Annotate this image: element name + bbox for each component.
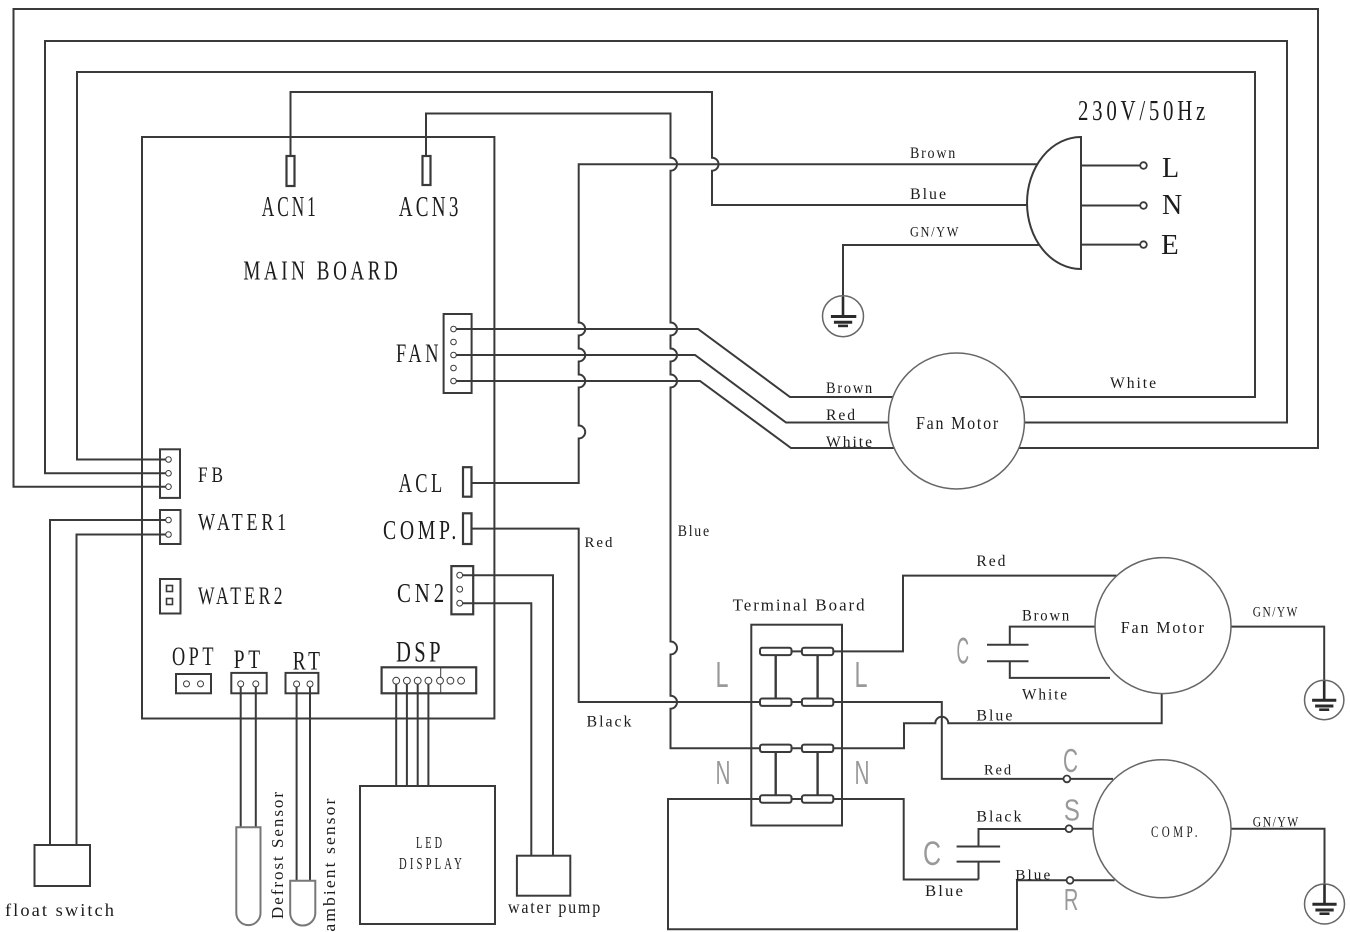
svg-text:Red: Red	[585, 535, 615, 551]
connector WATER1	[159, 510, 181, 544]
svg-text:White: White	[1022, 687, 1069, 704]
wire fan motor 2 capacitor top (Brown)	[1010, 627, 1097, 645]
COMP C terminal circle	[1064, 776, 1071, 783]
svg-text:N: N	[855, 754, 870, 791]
svg-text:FAN: FAN	[396, 339, 442, 368]
wire COMP connector to terminal board L row (Red/Black)	[471, 529, 835, 702]
svg-text:CN2: CN2	[397, 578, 448, 608]
svg-text:LED: LED	[416, 833, 445, 852]
svg-text:Brown: Brown	[910, 145, 957, 162]
wire fan motor 2 to ground (GN/YW)	[1230, 627, 1324, 681]
svg-text:Fan Motor: Fan Motor	[916, 413, 1000, 433]
wire ACL to plug L terminal (Brown) with hops	[471, 164, 1037, 483]
plug terminal L	[1081, 162, 1147, 169]
connector FB	[159, 449, 180, 498]
wire ACN3 to terminal board N row (Blue vertical) with hops	[426, 114, 843, 749]
ambient sensor probe	[290, 881, 315, 926]
connector ACL pin	[463, 467, 472, 497]
wire WATER1 pin1 to float switch	[50, 520, 165, 845]
svg-text:L: L	[855, 654, 868, 695]
svg-text:COMP.: COMP.	[1151, 824, 1201, 841]
svg-text:S: S	[1064, 793, 1080, 828]
wire FAN pin5 to fan motor 1 (White)	[456, 381, 895, 448]
svg-text:Defrost Sensor: Defrost Sensor	[268, 790, 287, 919]
svg-text:Fan Motor: Fan Motor	[1121, 618, 1206, 637]
svg-text:GN/YW: GN/YW	[1253, 815, 1300, 831]
svg-text:Brown: Brown	[826, 380, 874, 397]
plug terminal E	[1081, 241, 1147, 248]
svg-text:L: L	[1162, 153, 1179, 184]
wire CN2 pin1 to water pump right	[463, 575, 553, 856]
LED display box	[360, 786, 495, 924]
svg-text:Blue: Blue	[925, 883, 965, 900]
svg-text:RT: RT	[293, 647, 324, 676]
terminal board bars with connecting stems	[760, 648, 833, 803]
svg-text:ACN3: ACN3	[399, 191, 462, 223]
float switch box	[35, 845, 91, 886]
wire terminal board L top to fan motor 2 (Red)	[762, 576, 1117, 652]
svg-text:FB: FB	[198, 462, 227, 487]
svg-text:Blue: Blue	[976, 708, 1014, 725]
svg-text:Brown: Brown	[1022, 608, 1071, 625]
svg-text:Red: Red	[984, 763, 1013, 779]
svg-text:ACL: ACL	[399, 468, 446, 498]
connector FAN	[444, 314, 473, 393]
svg-text:Black: Black	[587, 714, 634, 731]
COMP motor circle	[1093, 760, 1231, 898]
svg-text:Blue: Blue	[1015, 867, 1052, 883]
defrost sensor probe	[236, 827, 260, 925]
COMP R terminal circle	[1067, 877, 1074, 884]
terminal board box	[751, 625, 842, 826]
fan motor 1 circle	[889, 353, 1025, 489]
wire DSP pins to LED display	[396, 684, 428, 786]
fan motor 2 circle	[1095, 558, 1231, 694]
svg-text:ambient sensor: ambient sensor	[320, 797, 339, 932]
svg-text:GN/YW: GN/YW	[910, 225, 960, 241]
svg-text:PT: PT	[234, 645, 264, 674]
svg-text:DISPLAY: DISPLAY	[399, 854, 465, 873]
connector PT	[231, 673, 266, 695]
connector COMP pin	[463, 513, 472, 544]
connector DSP	[382, 667, 477, 694]
wire COMP to ground (GN/YW)	[1231, 829, 1325, 885]
wire FAN pin1 to fan motor 1 (Brown)	[456, 329, 893, 397]
wire outer frame loop: FB pin3 to fan motor 1 lower right	[14, 9, 1319, 487]
connector WATER2	[160, 579, 181, 614]
connector OPT	[176, 674, 211, 693]
wire terminal board N bottom left loop to COMP R terminal (Blue)	[668, 799, 1115, 929]
connector CN2	[451, 566, 474, 614]
wire FAN pin3 to fan motor 1 (Red)	[456, 355, 889, 423]
svg-text:C: C	[1063, 742, 1078, 779]
capacitor C fan2 plates	[987, 645, 1029, 661]
wire ACN1 to plug N terminal (Blue) with hop at Brown crossing	[291, 92, 1028, 205]
wire CN2 pin3 to water pump left	[463, 603, 532, 856]
connector ACN3 pin	[423, 156, 431, 185]
svg-text:C: C	[923, 835, 941, 873]
svg-text:Terminal Board: Terminal Board	[733, 596, 867, 615]
main board box	[142, 137, 494, 719]
wire fan motor 2 capacitor bottom (White)	[1010, 661, 1110, 678]
wire WATER1 pin2 to float switch	[77, 535, 166, 846]
svg-text:COMP.: COMP.	[383, 515, 460, 545]
svg-text:N: N	[1162, 190, 1182, 221]
wire RT pins to ambient sensor	[297, 693, 310, 881]
svg-text:ACN1: ACN1	[262, 191, 319, 223]
svg-text:L: L	[716, 654, 729, 695]
svg-text:C: C	[957, 631, 970, 672]
wire third frame loop: FB pin1 to fan motor 1 upper right (White)	[77, 72, 1255, 460]
svg-text:water pump: water pump	[508, 897, 602, 917]
capacitor C comp plates	[957, 847, 1001, 880]
svg-text:White: White	[1110, 375, 1158, 392]
svg-text:DSP: DSP	[396, 636, 444, 669]
ground symbol top (plug earth)	[823, 296, 864, 337]
svg-text:R: R	[1064, 882, 1079, 917]
wire terminal board N bottom to COMP capacitor bottom	[833, 799, 978, 880]
water pump box	[517, 856, 570, 896]
svg-text:float switch: float switch	[5, 900, 116, 920]
ground symbol COMP	[1305, 884, 1345, 924]
svg-text:Blue: Blue	[910, 186, 948, 203]
wire COMP capacitor top to S terminal (Black)	[979, 829, 1095, 847]
ground symbol fan motor 2	[1305, 680, 1344, 719]
svg-text:GN/YW: GN/YW	[1253, 605, 1299, 621]
wire GN/YW plug earth to ground symbol	[843, 245, 1039, 297]
svg-text:MAIN BOARD: MAIN BOARD	[243, 256, 401, 286]
svg-text:Blue: Blue	[678, 523, 711, 540]
connector RT	[286, 673, 319, 695]
svg-text:White: White	[826, 434, 874, 451]
plug terminal N	[1081, 202, 1147, 209]
COMP S terminal circle	[1066, 825, 1073, 832]
svg-text:N: N	[716, 754, 731, 791]
svg-text:WATER2: WATER2	[198, 583, 286, 610]
wire terminal board L bottom to COMP C terminal (Red)	[833, 702, 1113, 779]
svg-text:WATER1: WATER1	[198, 510, 290, 536]
power plug 230V	[1027, 137, 1081, 269]
svg-text:OPT: OPT	[172, 642, 217, 671]
wire PT pins to defrost sensor	[241, 693, 256, 827]
connector ACN1 pin	[287, 156, 295, 186]
svg-text:Red: Red	[826, 407, 857, 424]
svg-text:E: E	[1161, 229, 1179, 261]
wire terminal board N top to fan motor 2 bottom (Blue) with hop	[843, 694, 1162, 748]
svg-text:Red: Red	[976, 553, 1007, 570]
svg-text:Black: Black	[976, 809, 1023, 826]
svg-text:230V/50Hz: 230V/50Hz	[1078, 96, 1209, 127]
wire second frame loop: FB pin2 to fan motor 1 mid right	[45, 41, 1287, 473]
